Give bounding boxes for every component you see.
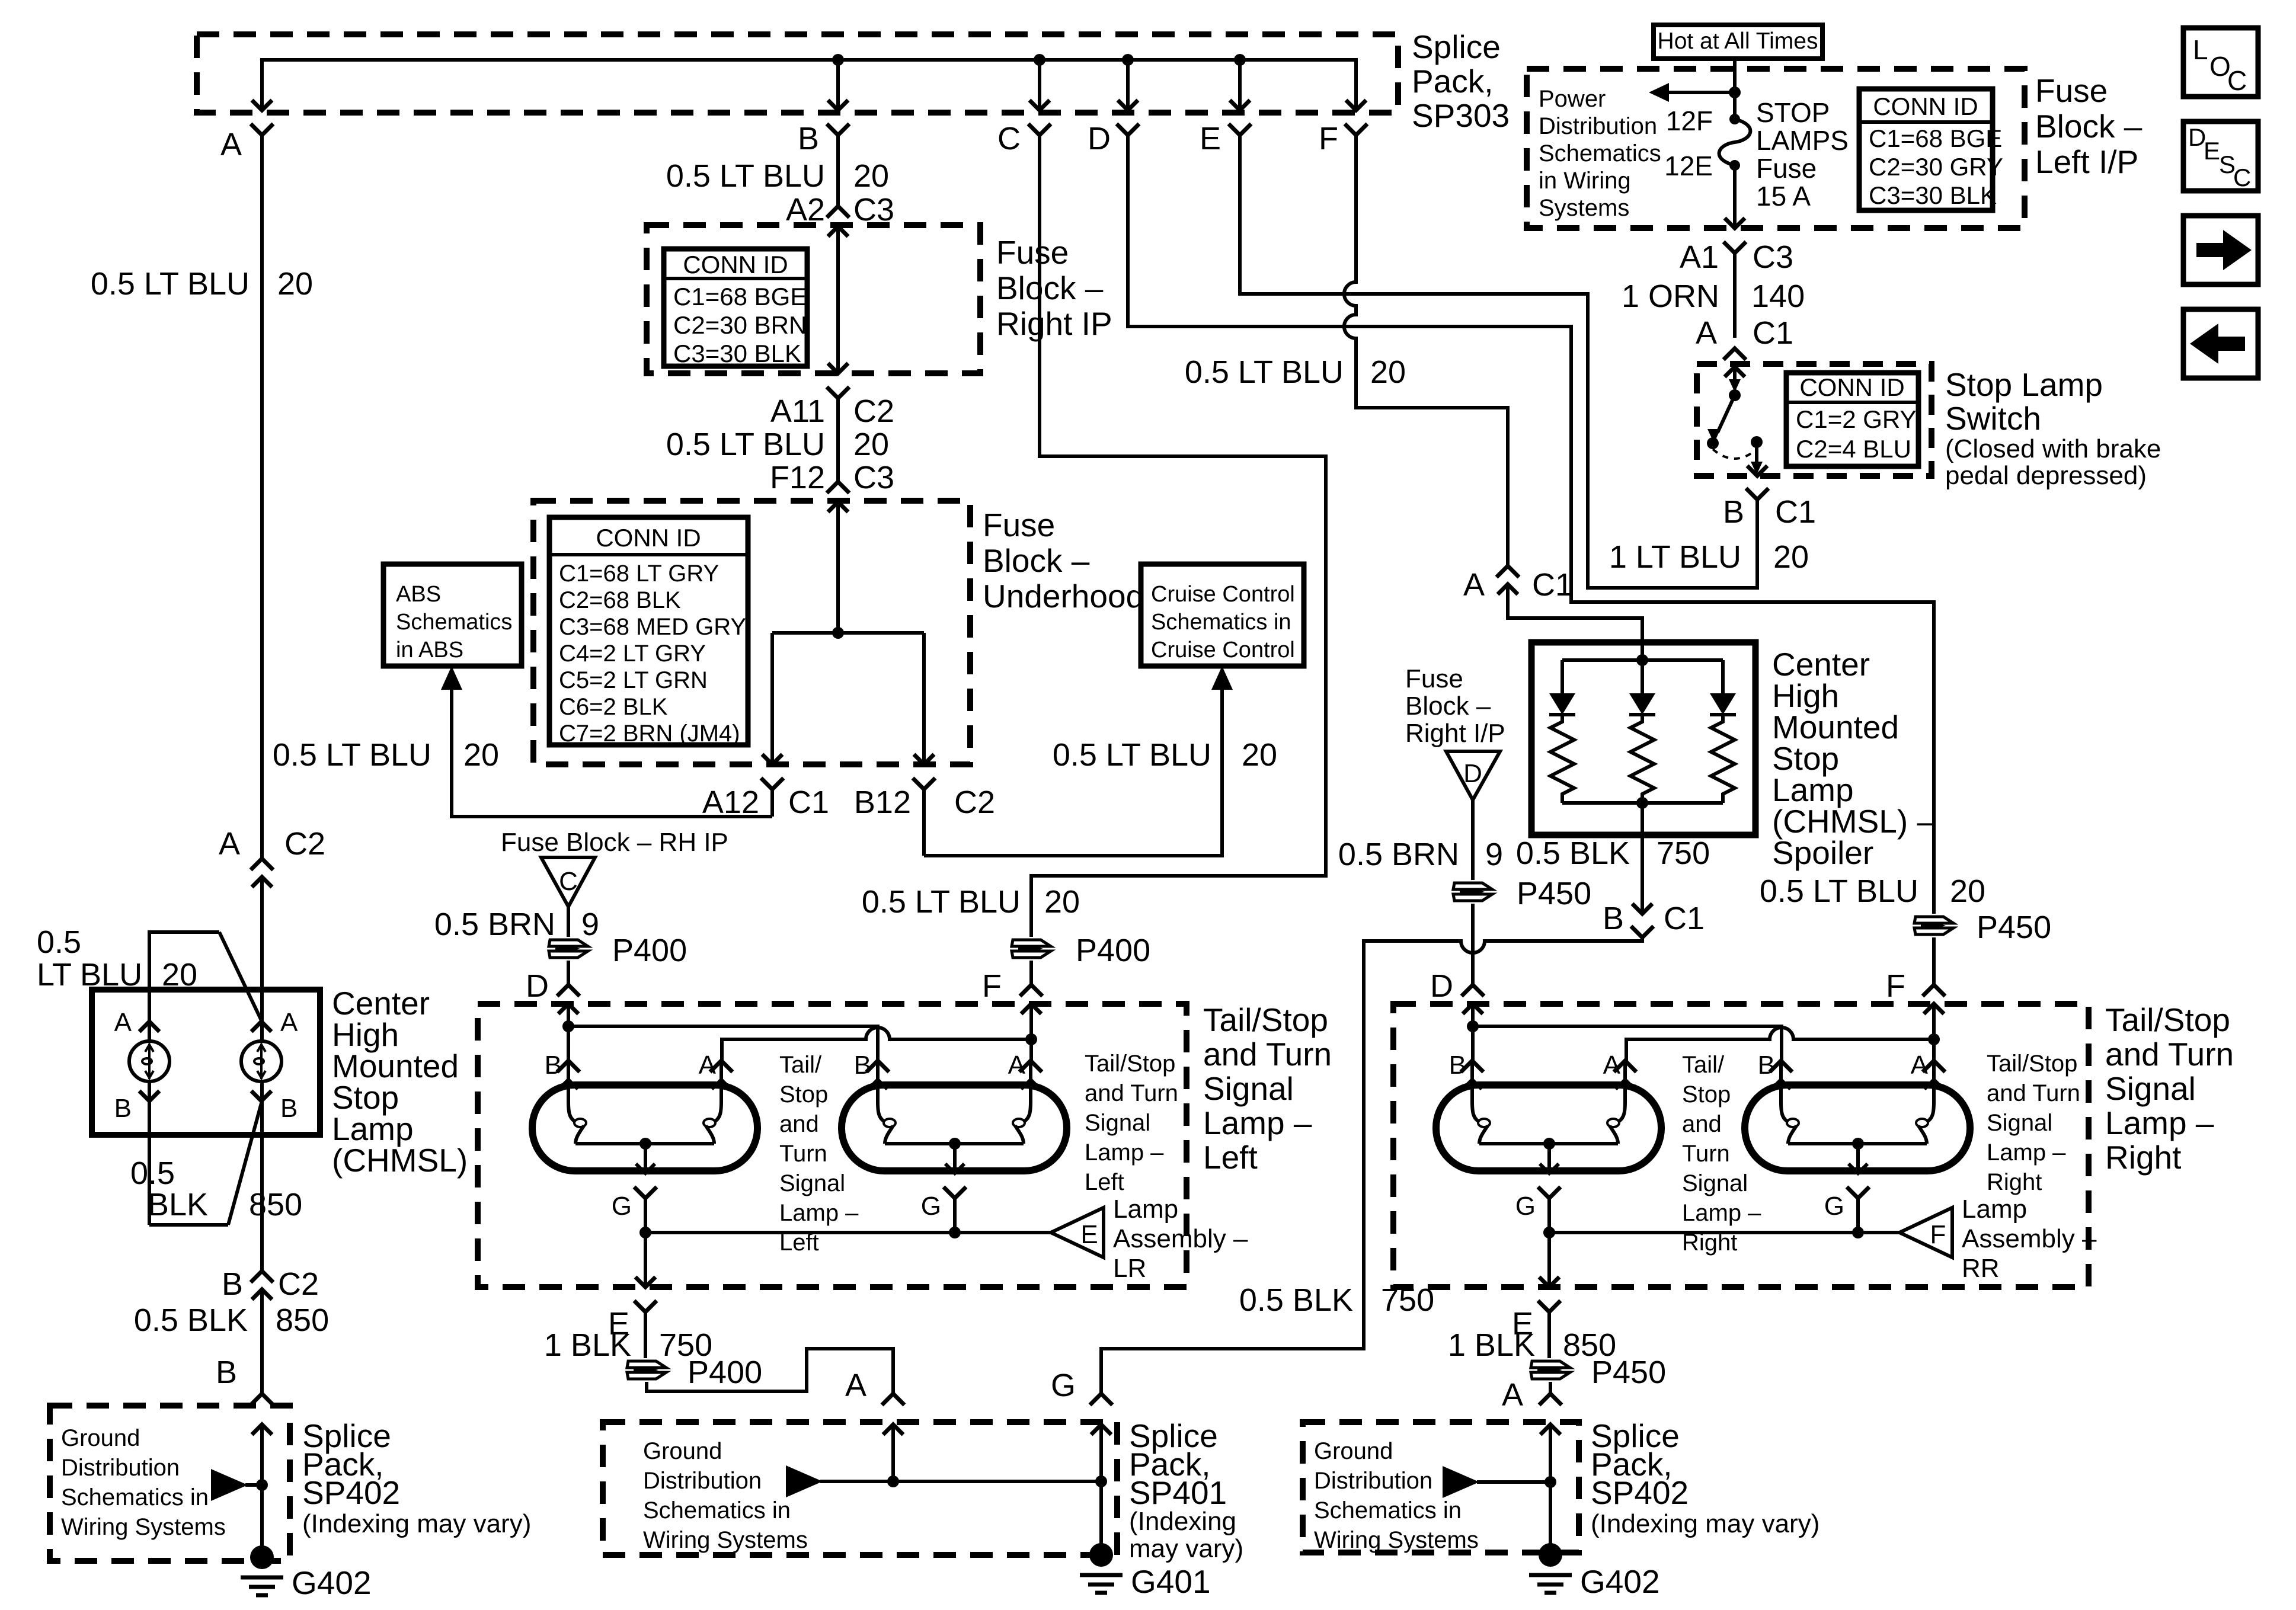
lamp element 3 (spoiler) [1710, 660, 1736, 803]
spoiler CHMSL box [1531, 642, 1755, 835]
label G (SP401) [1051, 1368, 1076, 1403]
pin labels lamp1 left [545, 1051, 717, 1080]
svg-text:A: A [1911, 1051, 1929, 1080]
label A2 C3 [786, 192, 894, 228]
svg-text:Right: Right [2105, 1139, 2181, 1176]
svg-text:C1: C1 [1753, 315, 1793, 351]
svg-text:0.5 BLK: 0.5 BLK [134, 1302, 248, 1338]
svg-text:A11: A11 [770, 393, 825, 429]
lamp element 1 (spoiler) [1549, 660, 1575, 803]
svg-text:Lamp: Lamp [1962, 1195, 2027, 1224]
svg-text:B: B [114, 1094, 132, 1123]
svg-text:B: B [798, 121, 819, 156]
nav box LOC [2183, 28, 2258, 97]
label 0.5 LT BLU 20 (CHMSL) [37, 924, 197, 993]
label 0.5 BLK 850 (CHMSL) [130, 1156, 302, 1222]
svg-text:850: 850 [249, 1187, 302, 1222]
wire E path [1240, 135, 1757, 588]
svg-text:Left: Left [1085, 1169, 1124, 1195]
svg-text:A: A [220, 127, 242, 162]
svg-text:750: 750 [1657, 836, 1710, 871]
wire below P400 F [1029, 961, 1033, 985]
label B12 C2 [854, 785, 995, 820]
off-page triangle C [541, 857, 595, 907]
svg-text:Tail/Stop: Tail/Stop [2105, 1001, 2230, 1038]
svg-text:P400: P400 [612, 933, 687, 968]
wire left box jumper2 [722, 1028, 1031, 1061]
wire left G bus [645, 1231, 1051, 1234]
label Fuse Block - Left I/P [2035, 72, 2142, 180]
switch travel arc [1713, 449, 1757, 459]
node SP303 D [1122, 54, 1134, 66]
wire SP402-left down [260, 1485, 264, 1553]
label F12 C3 [770, 460, 894, 495]
svg-text:Turn: Turn [779, 1141, 827, 1167]
switch output wire [1751, 442, 1763, 475]
node SP303 E [1234, 54, 1246, 66]
svg-text:and Turn: and Turn [1987, 1080, 2080, 1106]
wire left E exit [634, 1233, 657, 1358]
pin labels lamp2 right [1758, 1051, 1929, 1080]
wire CHMSL right bulb down [260, 1081, 264, 1271]
switch arm [1707, 395, 1735, 443]
svg-text:Ground: Ground [643, 1438, 722, 1464]
svg-text:Signal: Signal [1085, 1110, 1150, 1136]
connector at SP303 exit B [827, 100, 849, 135]
svg-text:9: 9 [1485, 837, 1503, 872]
svg-text:pedal depressed): pedal depressed) [1945, 461, 2147, 490]
svg-text:Spoiler: Spoiler [1772, 834, 1873, 871]
svg-text:C2: C2 [954, 785, 995, 820]
wire right box B feed [0, 0, 1, 1]
pin label A [220, 127, 242, 162]
inline connector B/C2 [222, 1266, 319, 1394]
svg-text:L: L [2193, 34, 2208, 65]
svg-text:Wiring Systems: Wiring Systems [643, 1527, 808, 1553]
svg-text:Power: Power [1539, 86, 1606, 112]
svg-text:D: D [1430, 968, 1453, 1004]
svg-text:Right I/P: Right I/P [1405, 719, 1505, 748]
grommet P450 (right F feed) [1914, 917, 1953, 934]
svg-text:F: F [1930, 1220, 1946, 1249]
label 0.5 BLK 750 (ground path) [1239, 1282, 1434, 1318]
svg-text:0.5 LT BLU: 0.5 LT BLU [273, 737, 431, 773]
svg-text:BLK: BLK [148, 1187, 208, 1222]
wire SP402-right down [1549, 1482, 1552, 1550]
svg-text:A: A [1463, 567, 1485, 603]
svg-text:E: E [1080, 1220, 1098, 1249]
svg-text:Block –: Block – [983, 542, 1090, 579]
label 1 BLK 750 [544, 1327, 712, 1363]
label Tail/Stop... (between right lamps) [1682, 1052, 1761, 1256]
label G lamp1 right [1515, 1192, 1536, 1221]
label STOP LAMPS Fuse 15 A [1756, 97, 1849, 212]
svg-text:0.5 LT BLU: 0.5 LT BLU [1760, 873, 1918, 909]
svg-text:CONN ID: CONN ID [1873, 92, 1978, 120]
node underhood junction [832, 627, 844, 639]
connector G into SP401 [1090, 1394, 1112, 1481]
label F (left box) [982, 968, 1002, 1004]
wire right E exit [1538, 1233, 1560, 1358]
svg-text:D: D [526, 968, 549, 1004]
svg-text:Stop: Stop [779, 1081, 828, 1108]
svg-text:C3=68 MED GRY: C3=68 MED GRY [559, 614, 746, 640]
label F (right box) [1886, 968, 1905, 1004]
label P450 (right F feed) [1977, 910, 2051, 945]
stop lamp switch dashed box [1697, 364, 1932, 476]
tail/stop right dashed box [1393, 1004, 2089, 1287]
svg-text:Block –: Block – [2035, 108, 2142, 145]
svg-text:C4=2 LT GRY: C4=2 LT GRY [559, 641, 706, 667]
svg-text:12F: 12F [1666, 105, 1713, 136]
label 0.5 LT BLU 20 (cruise wire) [1053, 737, 1277, 773]
label G lamp1 left [612, 1192, 632, 1221]
label Splice Pack SP401 [1129, 1417, 1243, 1563]
switch right contact [1751, 436, 1763, 448]
label Splice Pack, SP303 [1412, 28, 1510, 134]
svg-text:B: B [1449, 1051, 1466, 1080]
label Stop Lamp Switch [1945, 366, 2161, 490]
label Tail/Stop... (right of right lamp2) [1987, 1051, 2080, 1195]
wire from hot box [1733, 59, 1737, 119]
svg-text:Right: Right [1987, 1169, 2042, 1195]
label A C1 (switch in) [1696, 315, 1793, 351]
label A11 C2 [770, 393, 894, 429]
label A C1 (spoiler conn) [1463, 567, 1573, 603]
svg-text:850: 850 [276, 1302, 329, 1338]
svg-text:9: 9 [581, 907, 599, 942]
inline connector A/C2 [251, 859, 273, 1007]
svg-text:SP402: SP402 [1591, 1474, 1689, 1511]
wire left box jumper1 [568, 1026, 878, 1061]
tail/stop left dashed box [478, 1004, 1187, 1287]
svg-text:LT BLU: LT BLU [37, 957, 142, 993]
label P450 (right ground) [1591, 1355, 1666, 1390]
pin labels CHMSL A [114, 1008, 298, 1037]
svg-text:Lamp –: Lamp – [779, 1200, 859, 1226]
label 0.5 LT BLU 20 (wire B lower) [666, 427, 889, 462]
wire SP303 drop B [836, 60, 840, 110]
label Ground Distribution (right) [1314, 1438, 1479, 1553]
wire CHMSL left bulb jumper [149, 932, 261, 1020]
svg-text:20: 20 [1242, 737, 1277, 773]
svg-text:C1: C1 [1775, 494, 1816, 530]
svg-text:Tail/Stop: Tail/Stop [1085, 1051, 1175, 1077]
svg-text:C2: C2 [284, 826, 325, 862]
svg-text:0.5 LT BLU: 0.5 LT BLU [666, 427, 825, 462]
svg-text:F: F [982, 968, 1002, 1004]
connector out of right IP box [827, 363, 849, 482]
svg-text:Fuse Block – RH IP: Fuse Block – RH IP [501, 828, 728, 857]
wire F inside left box [1029, 1004, 1033, 1061]
svg-text:0.5 LT BLU: 0.5 LT BLU [862, 884, 1021, 920]
svg-text:B: B [1603, 901, 1624, 936]
svg-text:Tail/Stop: Tail/Stop [1203, 1001, 1328, 1038]
svg-text:20: 20 [853, 427, 889, 462]
arrow power distribution [1649, 83, 1735, 102]
svg-text:A: A [1696, 315, 1717, 351]
svg-text:(Indexing: (Indexing [1129, 1507, 1236, 1536]
svg-text:Systems: Systems [1539, 195, 1629, 221]
svg-text:Lamp –: Lamp – [1682, 1200, 1761, 1226]
wire CHMSL left bulb top [148, 990, 151, 1041]
arrow into Cruise box [1211, 666, 1233, 690]
label Power Distribution Schematics [1539, 86, 1661, 221]
svg-text:20: 20 [1950, 873, 1985, 909]
wire SP402-right link [1477, 1480, 1550, 1484]
node SP402-left [256, 1479, 268, 1491]
svg-text:Lamp –: Lamp – [1203, 1105, 1312, 1141]
svg-text:Underhood: Underhood [983, 578, 1144, 614]
switch common contact [1729, 389, 1741, 401]
wire left box B feed [0, 0, 1, 1]
wire fuse to box edge [1733, 165, 1737, 228]
svg-text:Lamp: Lamp [1113, 1195, 1178, 1224]
svg-text:in Wiring: in Wiring [1539, 168, 1631, 194]
label Cruise Control Schematics [1151, 582, 1295, 662]
grommet P400 (D feed left) [549, 940, 588, 958]
svg-text:SP401: SP401 [1129, 1474, 1227, 1511]
triangle lamp assembly LR [1051, 1208, 1104, 1257]
svg-text:A: A [699, 1051, 717, 1080]
CHMSL bulb left [129, 1041, 170, 1081]
connector F into left box [1020, 985, 1043, 1014]
svg-text:Turn: Turn [1682, 1141, 1730, 1167]
pin label C [997, 121, 1021, 156]
svg-text:0.5 LT BLU: 0.5 LT BLU [666, 158, 825, 194]
svg-text:C2=4 BLU: C2=4 BLU [1796, 435, 1911, 463]
label D (left box) [526, 968, 549, 1004]
connector out of left IP box [1723, 218, 1746, 338]
label Tail/Stop and Turn Signal Lamp - Right (outer) [2105, 1001, 2234, 1176]
label Center High Mounted Stop Lamp (CHMSL) [332, 985, 468, 1179]
pin label D [1088, 121, 1111, 156]
CHMSL bulb right [241, 1041, 282, 1081]
node SP303 C [1034, 54, 1045, 66]
label 0.5 BLK 850 (below CHMSL) [134, 1302, 329, 1338]
wire SP401 bus [820, 1480, 1101, 1483]
connector A into SP401 [882, 1394, 904, 1481]
svg-text:C1: C1 [788, 785, 829, 820]
svg-text:B: B [216, 1355, 237, 1390]
wire F drop with hops [1344, 135, 1508, 566]
connector at SP303 exit E [1229, 100, 1251, 135]
node SP303 B [832, 54, 844, 66]
wire CHMSL right bulb feed [260, 877, 264, 1041]
label Fuse Block - Right IP [996, 234, 1112, 342]
connector CHMSL bottom pins [139, 1091, 271, 1101]
label 12E [1664, 151, 1713, 181]
hot at all times box [1654, 25, 1822, 59]
pin label F [1319, 121, 1338, 156]
nav box DESC [2183, 121, 2258, 191]
label P400 (F feed) [1076, 933, 1150, 968]
wire SP303 drop E [1238, 60, 1242, 110]
arrow into ABS box [441, 666, 462, 690]
svg-text:A: A [219, 826, 240, 862]
svg-text:Schematics: Schematics [1539, 140, 1661, 167]
cruise control box [1141, 564, 1304, 666]
connector D into right box [1462, 985, 1484, 1014]
wire spoiler top bus [1562, 658, 1723, 662]
svg-text:C2=68 BLK: C2=68 BLK [559, 587, 681, 613]
svg-text:C: C [2227, 65, 2247, 96]
svg-text:Lamp –: Lamp – [1085, 1140, 1164, 1166]
label Fuse Block - RH IP [501, 828, 728, 857]
nav box next [2183, 216, 2258, 284]
node SP402-right [1544, 1476, 1556, 1488]
label Ground Distribution (center) [643, 1438, 808, 1553]
label 0.5 BRN 9 (right) [1338, 837, 1503, 872]
svg-text:C5=2 LT GRN: C5=2 LT GRN [559, 667, 708, 693]
label B C1 (switch out) [1723, 494, 1816, 530]
svg-text:C6=2 BLK: C6=2 BLK [559, 694, 668, 720]
svg-text:Lamp –: Lamp – [1987, 1140, 2066, 1166]
wire below P400 D [567, 961, 570, 985]
node right G bus 1 [1543, 1227, 1555, 1238]
svg-text:Stop: Stop [1682, 1081, 1731, 1108]
svg-text:CONN ID: CONN ID [596, 524, 701, 552]
label Tail/Stop... (right of left lamp2) [1085, 1051, 1178, 1195]
label Center High Mounted Stop Lamp CHMSL Spoiler [1772, 646, 1935, 871]
svg-text:B: B [854, 1051, 871, 1080]
svg-text:Distribution: Distribution [61, 1455, 180, 1481]
label G lamp2 right [1824, 1192, 1844, 1221]
svg-text:B: B [280, 1094, 298, 1123]
svg-text:Left I/P: Left I/P [2035, 143, 2138, 180]
fuse block underhood dashed box [533, 501, 970, 764]
inline connector A/C1 (spoiler) [1496, 566, 1519, 594]
label Lamp Assembly - LR [1113, 1195, 1248, 1283]
svg-text:C1: C1 [1664, 901, 1705, 936]
svg-text:RR: RR [1962, 1254, 2000, 1283]
CONN ID table (left IP) [1859, 89, 2003, 210]
svg-text:1 BLK: 1 BLK [544, 1327, 631, 1363]
connector CHMSL top pins [139, 1022, 271, 1032]
svg-text:(Closed with brake: (Closed with brake [1945, 434, 2161, 463]
svg-text:0.5 BRN: 0.5 BRN [434, 907, 555, 942]
svg-text:C3: C3 [1753, 239, 1793, 275]
label P400 (left ground) [687, 1355, 762, 1390]
svg-text:Cruise Control: Cruise Control [1151, 638, 1295, 662]
label Lamp Assembly - RR [1962, 1195, 2097, 1283]
svg-text:Fuse: Fuse [2035, 72, 2108, 109]
wire D inside right box [1471, 1004, 1475, 1061]
svg-text:Signal: Signal [1987, 1110, 2052, 1136]
wire right box jumper1 [1473, 1026, 1782, 1061]
label 0.5 LT BLU 20 (ABS wire) [273, 737, 499, 773]
ground dist SP401 dashed box [603, 1422, 1117, 1555]
svg-text:Splice: Splice [1412, 28, 1501, 65]
svg-text:20: 20 [463, 737, 499, 773]
svg-text:ABS: ABS [396, 582, 441, 607]
label G lamp2 left [921, 1192, 941, 1221]
ground dist SP402-right dashed box [1303, 1422, 1579, 1553]
label Splice Pack SP402 right [1591, 1417, 1819, 1538]
svg-text:20: 20 [162, 957, 197, 993]
wire right G bus [1549, 1231, 1900, 1234]
label E (right exit) [1512, 1306, 1533, 1342]
svg-text:Tail/: Tail/ [1682, 1052, 1725, 1078]
svg-text:G: G [1515, 1192, 1536, 1221]
svg-text:Schematics: Schematics [396, 610, 512, 635]
label Splice Pack SP402 left [302, 1417, 531, 1538]
wire CHMSL left bulb bottom [148, 1081, 151, 1225]
svg-text:Cruise Control: Cruise Control [1151, 582, 1295, 607]
svg-text:0.5 BLK: 0.5 BLK [1239, 1282, 1353, 1318]
label 0.5 LT BLU 20 (F feed) [862, 884, 1080, 920]
svg-text:12E: 12E [1664, 151, 1713, 181]
svg-text:0.5: 0.5 [37, 924, 81, 960]
label D (right box) [1430, 968, 1453, 1004]
svg-text:15 A: 15 A [1756, 181, 1811, 212]
svg-text:Block –: Block – [996, 270, 1104, 306]
node left box A feed [1025, 1033, 1037, 1045]
svg-text:1 LT BLU: 1 LT BLU [1609, 539, 1741, 575]
svg-text:may vary): may vary) [1129, 1534, 1243, 1563]
svg-text:20: 20 [1773, 539, 1809, 575]
tail/stop/turn lamp right 2 [1745, 1061, 1970, 1233]
node left G bus 1 [639, 1227, 651, 1238]
connector into right IP box [827, 206, 849, 373]
ground G402 right [1529, 1543, 1572, 1593]
connector at SP303 exit F [1345, 100, 1367, 135]
wire below P450 D [1471, 904, 1475, 985]
svg-text:C1: C1 [1532, 567, 1573, 603]
svg-text:and Turn: and Turn [1203, 1036, 1332, 1073]
label 0.5 LT BLU 20 (right F feed) [1760, 873, 1985, 909]
svg-text:0.5 BLK: 0.5 BLK [1516, 836, 1630, 871]
svg-text:D: D [1088, 121, 1111, 156]
svg-text:Fuse: Fuse [996, 234, 1069, 271]
svg-text:G401: G401 [1131, 1563, 1211, 1600]
label G401 [1131, 1563, 1211, 1600]
svg-text:Fuse: Fuse [1756, 153, 1817, 184]
svg-text:20: 20 [1044, 884, 1080, 920]
svg-text:C7=2 BRN (JM4): C7=2 BRN (JM4) [559, 721, 740, 747]
svg-text:Schematics in: Schematics in [643, 1497, 791, 1523]
connector F into right box [1923, 985, 1945, 1014]
svg-text:C2=30 GRY: C2=30 GRY [1869, 153, 2003, 181]
svg-text:Assembly –: Assembly – [1962, 1224, 2097, 1253]
connector D into left box [557, 985, 580, 1014]
tail/stop/turn lamp left 2 [842, 1061, 1067, 1233]
svg-text:LAMPS: LAMPS [1756, 125, 1849, 156]
svg-text:Ground: Ground [1314, 1438, 1393, 1464]
svg-text:C: C [2233, 164, 2251, 191]
label ABS Schematics in ABS [396, 582, 512, 662]
svg-text:C3: C3 [853, 460, 894, 495]
svg-text:B12: B12 [854, 785, 911, 820]
node right box B feed [1467, 1020, 1479, 1032]
splice triangle SP402-left [211, 1469, 248, 1501]
svg-text:B: B [1758, 1051, 1775, 1080]
svg-text:140: 140 [1751, 279, 1805, 314]
svg-text:0.5 BRN: 0.5 BRN [1338, 837, 1459, 872]
svg-text:20: 20 [277, 266, 313, 302]
svg-text:and: and [1682, 1111, 1722, 1137]
svg-text:Lamp –: Lamp – [2105, 1105, 2214, 1141]
svg-text:Distribution: Distribution [643, 1468, 762, 1494]
connector B/C1 spoiler [1603, 901, 1705, 937]
label G402 (left) [292, 1564, 372, 1601]
wire SP303 bus [262, 60, 1356, 110]
svg-text:SP303: SP303 [1412, 97, 1510, 134]
svg-text:A: A [845, 1368, 866, 1403]
tail/stop/turn lamp right 1 [1436, 1061, 1661, 1233]
nav box prev [2183, 309, 2258, 378]
svg-text:LR: LR [1113, 1254, 1146, 1283]
